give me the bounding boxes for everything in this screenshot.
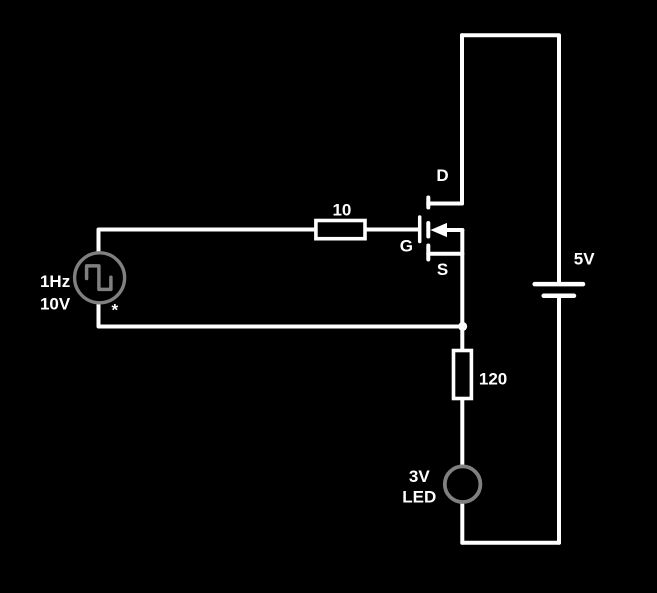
transistor Q1 n-MOSFET gate bar xyxy=(418,217,422,242)
wire source lead xyxy=(428,252,462,256)
wire bottom rail xyxy=(462,541,559,545)
wire drain lead xyxy=(428,202,462,206)
LED D1 circle xyxy=(445,466,481,502)
svg-text:3V: 3V xyxy=(409,467,430,486)
resistor R1 10 xyxy=(316,221,365,239)
transistor Q1 channel top segment xyxy=(426,198,430,208)
svg-text:S: S xyxy=(437,260,448,279)
wire resistor R2 to LED xyxy=(460,400,464,466)
wire right rail battery to bottom xyxy=(557,298,561,543)
transistor Q1 channel middle segment xyxy=(426,223,430,237)
svg-text:5V: 5V xyxy=(574,249,595,268)
resistor R2 120 xyxy=(454,351,472,399)
svg-text:D: D xyxy=(436,166,448,185)
svg-text:LED: LED xyxy=(402,488,436,507)
svg-text:G: G xyxy=(400,236,413,255)
battery B1 long plate xyxy=(535,282,583,287)
transistor Q1 channel bottom segment xyxy=(426,246,430,260)
wire source bottom to junction node xyxy=(99,304,463,327)
wire MOSFET source branch down to resistor R2 xyxy=(460,230,464,349)
svg-text:10: 10 xyxy=(332,201,351,220)
svg-text:*: * xyxy=(111,300,118,319)
wire LED to bottom rail xyxy=(460,502,464,543)
wire body-diode line to source branch xyxy=(447,228,462,232)
wire resistor R1 right lead to gate xyxy=(367,228,419,232)
voltage source V1 circle xyxy=(75,253,125,303)
svg-text:1Hz: 1Hz xyxy=(40,272,70,291)
transistor Q1 body-diode arrow xyxy=(430,223,447,237)
junction node dot xyxy=(458,322,467,331)
wire drain branch xyxy=(460,35,464,203)
svg-text:10V: 10V xyxy=(40,295,71,314)
wire right rail top to battery xyxy=(462,35,559,282)
wire gate-loop top: source top to resistor R1 left xyxy=(99,230,315,253)
battery B1 short plate xyxy=(544,294,574,299)
svg-text:120: 120 xyxy=(479,370,507,389)
voltage source V1 square-wave symbol xyxy=(87,266,111,290)
